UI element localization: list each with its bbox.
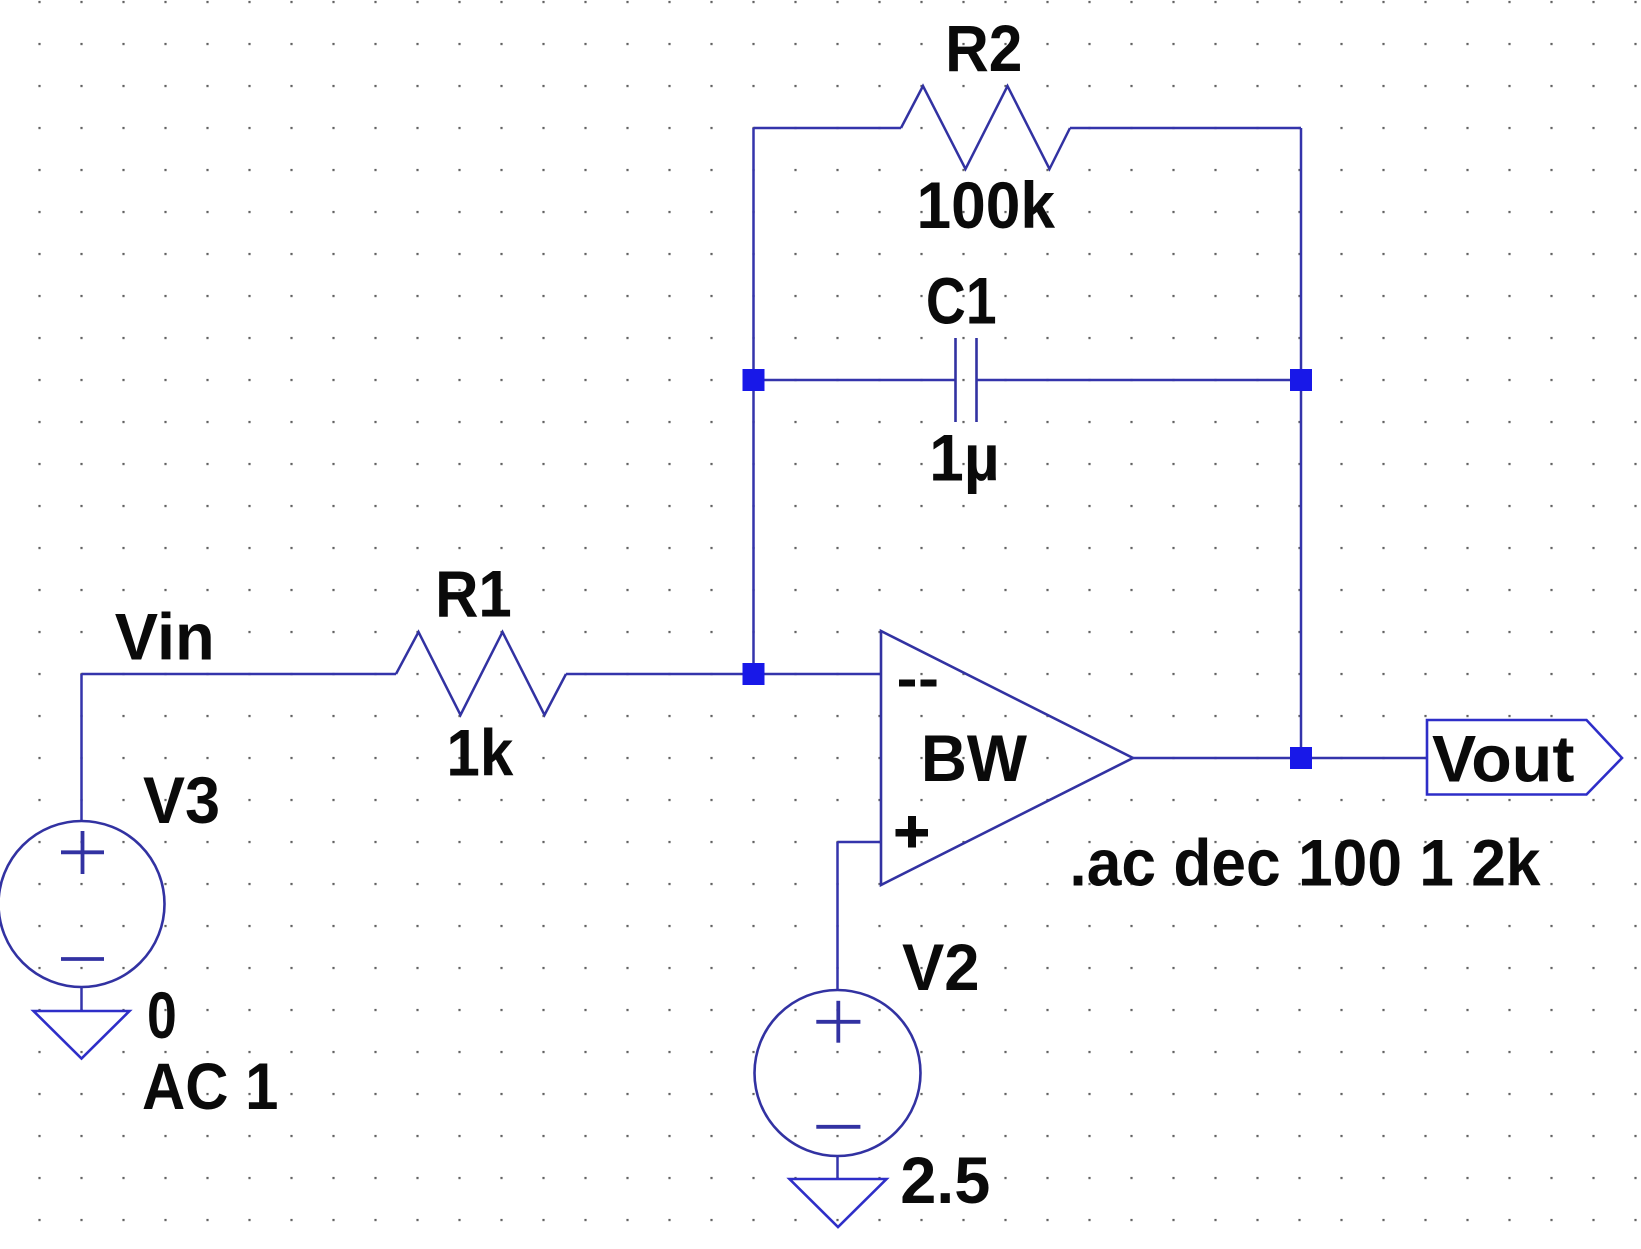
ground (V2) [790, 1179, 887, 1227]
svg-text:Vin: Vin [115, 599, 215, 673]
wire: R1 to op-amp inverting input [566, 673, 881, 676]
wire: C1 row left segment [754, 379, 956, 382]
junction node (feedback left / C1) [743, 369, 765, 391]
wire: V2 to ground stub [836, 1156, 839, 1179]
wire: V2 vertical [836, 842, 839, 990]
junction node (inverting input) [743, 663, 765, 685]
ground (V3) [34, 1011, 130, 1059]
wire: right vertical [1300, 128, 1303, 758]
op-amp non-inverting input mark + [896, 816, 929, 848]
wire: C1 row right segment [977, 379, 1302, 382]
svg-text:BW: BW [921, 721, 1028, 795]
wire: V3 to ground stub [80, 987, 83, 1011]
wire: feedback left vertical [752, 128, 755, 674]
svg-text:100k: 100k [917, 168, 1056, 242]
node Vin wire [82, 673, 397, 676]
op-amp inverting input minus mark [899, 680, 937, 687]
wire: R2 row right segment [1070, 127, 1301, 130]
svg-text:0: 0 [147, 978, 177, 1052]
wire: V3 top stub [80, 674, 83, 821]
svg-text:V2: V2 [902, 930, 980, 1004]
wire: R2 row left segment [754, 127, 902, 130]
wire: non-inverting input horizontal [838, 841, 882, 844]
net flag Vout [1427, 720, 1622, 795]
svg-text:R1: R1 [435, 556, 512, 630]
junction node (right vertical / C1) [1290, 369, 1312, 391]
junction node (output) [1290, 747, 1312, 769]
resistor R1 [396, 632, 566, 715]
svg-text:2.5: 2.5 [900, 1143, 990, 1217]
capacitor C1 [956, 338, 977, 422]
voltage source V2 [755, 990, 921, 1156]
op-amp U1 triangle [881, 631, 1133, 885]
wire: output [1133, 757, 1427, 760]
resistor R2 [901, 86, 1070, 169]
voltage source V3 [0, 821, 165, 987]
svg-text:AC 1: AC 1 [142, 1049, 278, 1123]
svg-text:Vout: Vout [1432, 721, 1574, 795]
svg-text:V3: V3 [143, 763, 220, 837]
svg-text:1µ: 1µ [929, 421, 999, 495]
svg-text:.ac dec 100 1 2k: .ac dec 100 1 2k [1069, 826, 1540, 900]
svg-text:R2: R2 [945, 11, 1022, 85]
svg-text:C1: C1 [926, 264, 997, 338]
svg-text:1k: 1k [446, 715, 513, 789]
